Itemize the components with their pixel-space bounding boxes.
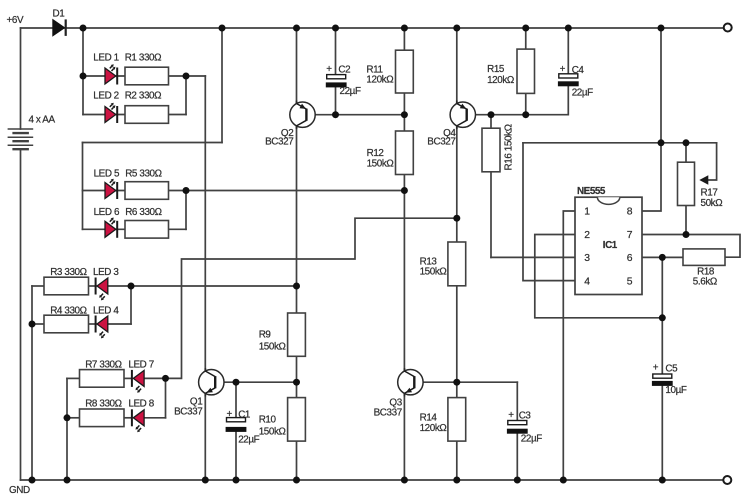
svg-text:5: 5 bbox=[627, 276, 633, 287]
resistor R3 330 bbox=[44, 277, 89, 295]
wires center columns bbox=[205, 28, 568, 480]
svg-text:IC1: IC1 bbox=[603, 240, 618, 251]
node top rail C2 bbox=[332, 25, 339, 32]
svg-text:1: 1 bbox=[584, 207, 590, 218]
LED 4 bbox=[96, 316, 108, 339]
wire C1 lead bottom bbox=[235, 432, 237, 480]
LED 5 bbox=[105, 179, 117, 199]
wire bbox=[32, 285, 44, 287]
resistor R10 150k bbox=[288, 398, 306, 442]
svg-text:3: 3 bbox=[584, 253, 590, 264]
wires IC1 pins bbox=[491, 28, 740, 480]
svg-text:+: + bbox=[326, 64, 332, 75]
wire bbox=[89, 285, 97, 287]
resistor R2 330 bbox=[125, 106, 169, 124]
terminal GND out bbox=[723, 476, 731, 484]
node R13 R14 Q3 base bbox=[453, 379, 460, 386]
wire R17 bottom lead bbox=[685, 206, 687, 235]
node R1 R2 out bbox=[183, 73, 190, 80]
wire bbox=[83, 190, 126, 192]
node C1 top bbox=[233, 379, 240, 386]
svg-text:R3 330Ω: R3 330Ω bbox=[50, 267, 86, 278]
wire pin7 bbox=[642, 235, 740, 258]
transistor Q1 BC337 bbox=[199, 368, 224, 396]
wire C2 lead bottom bbox=[335, 87, 337, 114]
wires LED bank D bbox=[67, 218, 457, 480]
wire C2 lead top bbox=[335, 28, 337, 75]
LED 2 bbox=[105, 103, 117, 123]
wire bbox=[165, 378, 167, 417]
resistor R14 120k bbox=[448, 398, 466, 442]
capacitor C5 10uF bbox=[652, 374, 673, 386]
resistor R12 150k bbox=[396, 131, 414, 175]
svg-text:8: 8 bbox=[627, 207, 633, 218]
capacitor C2 22uF bbox=[326, 75, 347, 88]
wire C3 lead bottom bbox=[516, 434, 518, 480]
resistor R6 330 bbox=[125, 221, 169, 239]
svg-text:LED 7: LED 7 bbox=[128, 360, 153, 371]
node GND C1 bbox=[233, 477, 240, 484]
node GND Q3 bbox=[401, 477, 408, 484]
IC1 NE555 body bbox=[575, 197, 642, 294]
svg-text:R6 330Ω: R6 330Ω bbox=[125, 207, 161, 218]
svg-text:R15: R15 bbox=[487, 64, 505, 75]
node R16 top bbox=[488, 111, 495, 118]
svg-text:BC327: BC327 bbox=[265, 136, 293, 147]
wire pin4 bbox=[523, 143, 575, 281]
resistor R11 120k bbox=[396, 50, 414, 93]
node Vcc R17 riser bbox=[658, 139, 665, 146]
wire bbox=[186, 75, 205, 77]
wire R17 top lead bbox=[685, 143, 687, 162]
node GND pin1 bbox=[560, 477, 567, 484]
node LED7 LED8 out bbox=[162, 375, 169, 382]
node top rail Q2 bbox=[293, 25, 300, 32]
LED 7 bbox=[132, 370, 144, 393]
wires LED bank B feed bbox=[83, 28, 405, 229]
svg-text:+: + bbox=[560, 64, 566, 75]
wire node to R12 bottom bbox=[186, 190, 404, 192]
wire bbox=[82, 143, 84, 230]
svg-text:120kΩ: 120kΩ bbox=[420, 423, 447, 434]
node Q2 collector R9 bbox=[293, 283, 300, 290]
wire pin8 bbox=[642, 28, 661, 211]
svg-text:10µF: 10µF bbox=[665, 385, 686, 396]
svg-text:LED 3: LED 3 bbox=[93, 267, 119, 278]
wires LED bank A feed bbox=[83, 28, 205, 115]
wire bbox=[67, 417, 80, 419]
wire bbox=[67, 377, 80, 379]
node R12 bottom bbox=[401, 187, 408, 194]
svg-text:LED 1: LED 1 bbox=[93, 53, 119, 64]
svg-text:C2: C2 bbox=[338, 64, 350, 75]
svg-text:C5: C5 bbox=[665, 364, 678, 375]
svg-text:D1: D1 bbox=[53, 9, 66, 20]
wire pin2 bbox=[535, 235, 663, 318]
wire top rail +6V bbox=[21, 27, 724, 29]
svg-text:LED 5: LED 5 bbox=[94, 169, 120, 180]
node top rail R15 bbox=[522, 25, 529, 32]
svg-text:+: + bbox=[653, 363, 659, 374]
wire bbox=[124, 417, 132, 419]
node pin2 pin6 bbox=[659, 314, 666, 321]
wire bbox=[108, 323, 131, 325]
svg-text:50kΩ: 50kΩ bbox=[701, 198, 723, 209]
wire C1 lead top bbox=[235, 382, 237, 418]
svg-text:+6V: +6V bbox=[7, 15, 24, 26]
node top rail D1 out bbox=[80, 25, 87, 32]
wire link to R13 node bbox=[166, 218, 457, 378]
node pin6 R18 bbox=[659, 254, 666, 261]
node GND bank D bbox=[64, 477, 71, 484]
wire node to Q2 collector bbox=[131, 285, 297, 287]
potentiometer R17 50k bbox=[678, 162, 709, 205]
resistor R13 150k bbox=[448, 242, 466, 286]
wire left rail upper bbox=[20, 28, 22, 129]
svg-text:120kΩ: 120kΩ bbox=[487, 75, 514, 86]
svg-text:BC337: BC337 bbox=[374, 408, 402, 419]
wire bbox=[169, 75, 187, 77]
node top rail bank B bbox=[219, 25, 226, 32]
svg-text:R16 150kΩ: R16 150kΩ bbox=[504, 124, 515, 170]
node GND Q1 bbox=[202, 477, 209, 484]
svg-text:2: 2 bbox=[584, 230, 590, 241]
resistor R7 330 bbox=[80, 370, 125, 388]
svg-text:R2 330Ω: R2 330Ω bbox=[125, 91, 161, 102]
wire C3 lead top bbox=[516, 382, 518, 421]
svg-text:+: + bbox=[227, 409, 233, 420]
svg-text:LED 2: LED 2 bbox=[93, 91, 118, 102]
wire R11 R12 column bbox=[403, 28, 405, 191]
node LED1 feed bbox=[80, 73, 87, 80]
resistor R9 150k bbox=[288, 313, 306, 356]
node R5 R6 out bbox=[183, 187, 190, 194]
svg-text:150kΩ: 150kΩ bbox=[367, 158, 394, 169]
node R17 top bbox=[683, 139, 690, 146]
node top rail C4 bbox=[565, 25, 572, 32]
svg-text:150kΩ: 150kΩ bbox=[420, 267, 447, 278]
svg-text:R7 330Ω: R7 330Ω bbox=[85, 360, 121, 371]
wire R13 R14 column bbox=[456, 218, 458, 480]
diode D1 bbox=[53, 19, 66, 36]
svg-text:7: 7 bbox=[627, 230, 633, 241]
svg-text:LED 6: LED 6 bbox=[94, 207, 120, 218]
resistor R16 150k bbox=[482, 128, 500, 172]
node R13 top bbox=[453, 215, 460, 222]
wire Q3 base row bbox=[415, 381, 518, 383]
wire bbox=[66, 378, 68, 480]
wire bbox=[82, 28, 84, 115]
node GND C5 bbox=[659, 477, 666, 484]
node R15 bottom bbox=[522, 111, 529, 118]
wire pin6 down to C5 node bbox=[661, 257, 663, 374]
svg-text:BC337: BC337 bbox=[174, 407, 202, 418]
svg-text:22µF: 22µF bbox=[238, 434, 259, 445]
wire R17 wiper arm bbox=[708, 143, 717, 180]
svg-text:R10: R10 bbox=[259, 414, 277, 425]
node GND bank C bbox=[29, 477, 36, 484]
wire Vcc row to R17 bbox=[523, 142, 717, 144]
transistor Q4 BC327 bbox=[450, 101, 475, 129]
svg-text:LED 4: LED 4 bbox=[93, 305, 119, 316]
wire bbox=[83, 114, 186, 116]
node R11 R12 base bbox=[401, 111, 408, 118]
svg-text:GND: GND bbox=[9, 485, 30, 496]
svg-text:R4 330Ω: R4 330Ω bbox=[50, 305, 86, 316]
node R17 bottom pin7 bbox=[683, 231, 690, 238]
wire Q2 base row bbox=[307, 114, 405, 116]
wire pin3 bbox=[491, 256, 575, 258]
node top rail R11 bbox=[401, 25, 408, 32]
wire bbox=[83, 75, 125, 77]
svg-text:LED 8: LED 8 bbox=[128, 399, 154, 410]
resistor R8 330 bbox=[80, 409, 125, 427]
svg-text:22µF: 22µF bbox=[572, 88, 593, 99]
node R4 feed bbox=[29, 321, 36, 328]
svg-text:C4: C4 bbox=[572, 65, 585, 76]
wire C4 lead bbox=[567, 28, 569, 74]
svg-text:120kΩ: 120kΩ bbox=[366, 75, 393, 86]
node R9 R10 mid bbox=[293, 379, 300, 386]
svg-text:5.6kΩ: 5.6kΩ bbox=[693, 276, 717, 287]
resistor R1 330 bbox=[125, 67, 169, 85]
svg-text:R12: R12 bbox=[367, 148, 384, 159]
svg-text:C3: C3 bbox=[519, 410, 532, 421]
LED 6 bbox=[105, 218, 117, 238]
wire bbox=[89, 323, 97, 325]
wire bbox=[31, 286, 33, 480]
resistor R5 330 bbox=[125, 182, 169, 200]
transistor Q3 BC337 bbox=[398, 368, 423, 396]
svg-text:BC327: BC327 bbox=[427, 136, 455, 147]
wire R15 lead bbox=[525, 28, 527, 115]
node C2 base Q2 bbox=[332, 111, 339, 118]
svg-text:NE555: NE555 bbox=[577, 186, 606, 197]
wire pin6 bbox=[642, 256, 683, 258]
wire bbox=[130, 286, 132, 324]
node GND C3 bbox=[514, 477, 521, 484]
wire bbox=[144, 417, 166, 419]
LED 8 bbox=[132, 409, 144, 432]
LED 3 bbox=[96, 278, 108, 301]
svg-text:6: 6 bbox=[627, 253, 633, 264]
svg-text:+: + bbox=[508, 410, 514, 421]
wire Q3 column bbox=[403, 191, 405, 481]
wire bbox=[124, 377, 132, 379]
svg-text:R9: R9 bbox=[259, 330, 272, 341]
node top rail Q4 bbox=[453, 25, 460, 32]
svg-text:22µF: 22µF bbox=[340, 86, 361, 97]
svg-text:150kΩ: 150kΩ bbox=[259, 426, 286, 437]
svg-text:4 x AA: 4 x AA bbox=[29, 115, 56, 126]
wires LED bank C bbox=[32, 286, 297, 480]
wire Q1 collector column bbox=[204, 76, 206, 480]
resistor R18 5.6k bbox=[683, 249, 725, 266]
svg-text:R5 330Ω: R5 330Ω bbox=[125, 169, 161, 180]
resistor R15 120k bbox=[517, 49, 535, 93]
node R8 feed bbox=[64, 414, 71, 421]
terminal +6V out bbox=[724, 24, 732, 32]
svg-text:R8 330Ω: R8 330Ω bbox=[85, 399, 121, 410]
capacitor C3 22uF bbox=[507, 421, 528, 434]
svg-text:4: 4 bbox=[584, 276, 590, 287]
capacitor C4 22uF bbox=[558, 74, 579, 87]
wire bbox=[185, 191, 187, 230]
wire bbox=[221, 28, 223, 143]
wire Q4 column bbox=[456, 28, 458, 218]
wire bottom rail GND bbox=[21, 479, 724, 481]
wire R16 lead to pin3 bbox=[490, 115, 492, 258]
svg-text:C1: C1 bbox=[238, 410, 251, 421]
wire Q1 base row bbox=[215, 381, 297, 383]
battery B1 4 x AA bbox=[8, 129, 34, 149]
wire bbox=[32, 323, 44, 325]
wire bbox=[185, 76, 187, 115]
node LED3 LED4 out bbox=[128, 283, 135, 290]
svg-text:R1 330Ω: R1 330Ω bbox=[125, 53, 161, 64]
wire C5 to GND bbox=[661, 386, 663, 480]
node GND R14 bbox=[453, 477, 460, 484]
node GND R10 bbox=[293, 477, 300, 484]
wire pin1 to GND bbox=[563, 211, 575, 480]
wire bbox=[83, 142, 223, 144]
capacitor C1 22uF bbox=[226, 418, 247, 432]
transistor Q2 BC327 bbox=[290, 101, 315, 129]
LED 1 bbox=[105, 64, 117, 84]
wire bbox=[108, 285, 131, 287]
wire bbox=[83, 228, 187, 230]
wire bbox=[169, 190, 187, 192]
wire Q4 base row bbox=[466, 87, 568, 115]
wire left rail lower bbox=[20, 149, 22, 480]
svg-text:150kΩ: 150kΩ bbox=[259, 341, 286, 352]
resistor R4 330 bbox=[44, 315, 89, 333]
svg-text:22µF: 22µF bbox=[521, 434, 542, 445]
wire bbox=[144, 377, 166, 379]
node top rail pin8 bbox=[658, 25, 665, 32]
wire Q2 column bbox=[296, 28, 298, 480]
